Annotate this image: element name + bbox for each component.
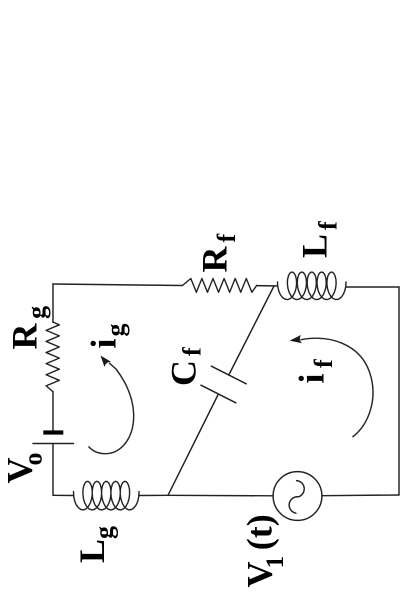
inductor Lg [74, 481, 140, 510]
wire Rf to node A [257, 285, 278, 287]
mesh current arrow if [301, 338, 373, 437]
AC source V1 circle [273, 472, 322, 521]
wire diagonal lower (Cf to node B) [168, 394, 218, 495]
wire source to node B [168, 494, 273, 497]
battery Vo thick plate [43, 430, 63, 434]
wire top edge left [53, 284, 183, 286]
resistor Rg [46, 322, 59, 392]
mesh current arrow ig [89, 363, 134, 454]
wire battery to Rg [52, 392, 54, 431]
capacitor Cf plates [201, 366, 246, 403]
inductor Lf [278, 272, 347, 300]
wire right edge [398, 287, 400, 495]
wire diagonal upper (node A to Cf) [229, 286, 274, 375]
wire Lf to top-right corner [346, 286, 399, 288]
wire Rg to top-left corner [52, 284, 54, 322]
AC source sine [289, 481, 304, 514]
wire Lg to bottom-left corner [53, 494, 74, 496]
resistor Rf [183, 279, 257, 293]
arrowhead ig [101, 356, 112, 368]
wire left edge lower [52, 444, 54, 496]
battery thin plate [33, 443, 74, 445]
wire node B to Lg [139, 494, 168, 496]
arrowhead if [290, 335, 302, 343]
wire bottom-right to source [322, 494, 399, 497]
